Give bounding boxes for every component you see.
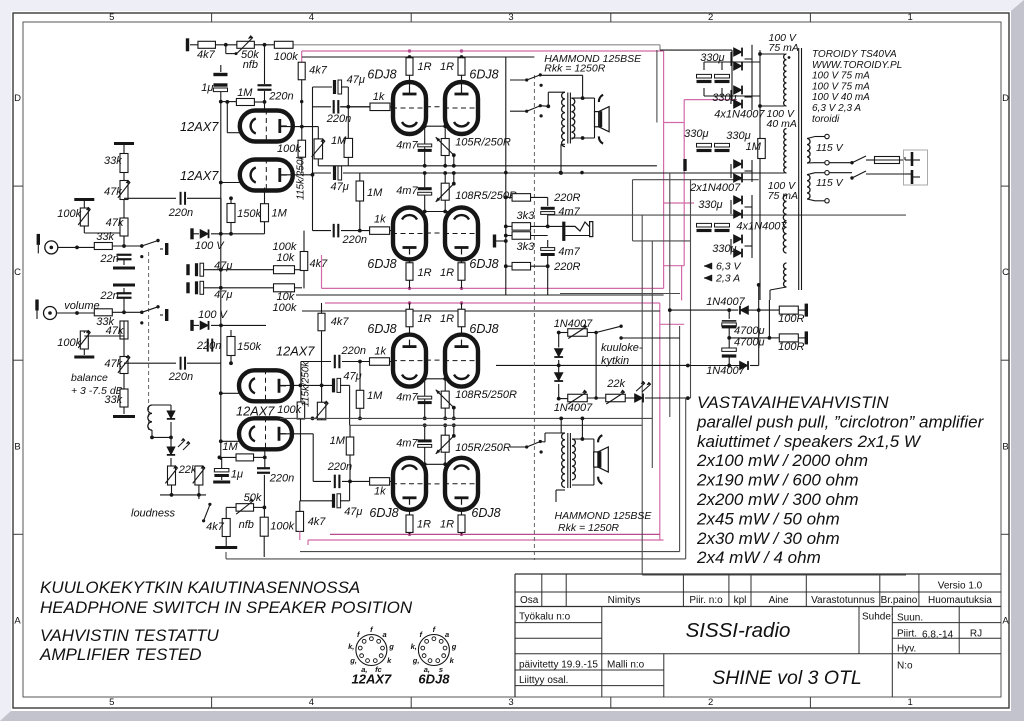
- svg-text:B: B: [1002, 441, 1008, 452]
- svg-text:220n: 220n: [168, 207, 193, 219]
- svg-text:1M: 1M: [367, 390, 383, 402]
- svg-text:k,: k,: [348, 642, 354, 651]
- svg-text:220n: 220n: [342, 234, 367, 246]
- svg-text:2x30 mW / 30 ohm: 2x30 mW / 30 ohm: [696, 529, 840, 548]
- svg-text:1M: 1M: [272, 208, 288, 220]
- svg-text:Br.paino: Br.paino: [881, 595, 918, 606]
- svg-text:12AX7: 12AX7: [276, 344, 315, 359]
- svg-text:1: 1: [908, 697, 913, 708]
- svg-text:g,: g,: [349, 656, 357, 665]
- svg-text:TOROIDY TS40VA: TOROIDY TS40VA: [812, 49, 897, 60]
- svg-text:1M: 1M: [330, 435, 346, 447]
- svg-text:2x200 mW / 300 ohm: 2x200 mW / 300 ohm: [696, 490, 859, 509]
- svg-text:47μ: 47μ: [343, 371, 361, 383]
- svg-text:a: a: [382, 630, 386, 639]
- svg-text:5: 5: [109, 12, 114, 23]
- svg-text:Hyv.: Hyv.: [897, 644, 916, 655]
- svg-text:150k: 150k: [237, 341, 261, 353]
- svg-text:40 mA: 40 mA: [767, 118, 797, 130]
- svg-text:100R: 100R: [778, 313, 804, 325]
- svg-text:kpl: kpl: [734, 595, 747, 606]
- svg-text:330μ: 330μ: [712, 243, 736, 255]
- svg-text:loudness: loudness: [131, 508, 176, 520]
- svg-text:100 V: 100 V: [195, 240, 225, 252]
- svg-text:päivitetty 19.9.-15: päivitetty 19.9.-15: [519, 660, 598, 671]
- svg-text:22k: 22k: [178, 464, 197, 476]
- svg-text:Osa: Osa: [520, 595, 539, 606]
- svg-text:6DJ8: 6DJ8: [469, 322, 498, 336]
- svg-text:4k7: 4k7: [310, 258, 329, 270]
- svg-text:115 V: 115 V: [816, 177, 844, 189]
- svg-text:2x45 mW / 50 ohm: 2x45 mW / 50 ohm: [696, 509, 840, 528]
- svg-text:115k/250k: 115k/250k: [301, 361, 312, 407]
- svg-text:VASTAVAIHEVAHVISTIN: VASTAVAIHEVAHVISTIN: [697, 393, 889, 412]
- svg-text:Aine: Aine: [769, 595, 789, 606]
- svg-text:105R/250R: 105R/250R: [455, 137, 511, 149]
- svg-text:3k3: 3k3: [517, 210, 536, 222]
- svg-text:4x1N4007: 4x1N4007: [714, 108, 765, 120]
- svg-text:balance: balance: [71, 372, 108, 384]
- svg-text:47k: 47k: [106, 325, 124, 337]
- svg-text:220n: 220n: [168, 371, 193, 383]
- svg-text:Työkalu n:o: Työkalu n:o: [519, 612, 571, 623]
- svg-text:100 V: 100 V: [198, 309, 228, 321]
- svg-text:22n: 22n: [99, 290, 118, 302]
- svg-text:47μ: 47μ: [214, 289, 232, 301]
- svg-text:g: g: [388, 642, 394, 651]
- svg-text:C: C: [14, 267, 21, 278]
- svg-text:nfb: nfb: [243, 59, 258, 71]
- svg-text:12AX7: 12AX7: [180, 168, 219, 183]
- svg-text:22n: 22n: [99, 253, 118, 265]
- svg-text:4k7: 4k7: [308, 516, 327, 528]
- svg-text:75 mA: 75 mA: [768, 190, 798, 202]
- svg-text:22k: 22k: [606, 378, 625, 390]
- svg-text:4x1N4007: 4x1N4007: [736, 221, 787, 233]
- svg-text:B: B: [14, 441, 20, 452]
- svg-text:220n: 220n: [326, 113, 351, 125]
- svg-text:Varastotunnus: Varastotunnus: [811, 595, 875, 606]
- svg-text:4m7: 4m7: [396, 139, 418, 151]
- svg-text:1M: 1M: [367, 187, 383, 199]
- svg-text:12AX7: 12AX7: [236, 404, 275, 419]
- svg-text:1N4007: 1N4007: [554, 318, 593, 330]
- svg-text:220n: 220n: [269, 473, 294, 485]
- svg-text:Suun.: Suun.: [897, 613, 923, 624]
- svg-text:2,3 A: 2,3 A: [715, 273, 740, 285]
- svg-text:a: a: [445, 630, 449, 639]
- svg-text:33k: 33k: [96, 231, 114, 243]
- svg-text:100 V 40 mA: 100 V 40 mA: [812, 92, 870, 103]
- svg-text:kytkin: kytkin: [601, 355, 629, 367]
- svg-text:100k: 100k: [270, 521, 294, 533]
- svg-text:1R: 1R: [440, 267, 454, 279]
- svg-text:2: 2: [708, 697, 713, 708]
- svg-text:2x4 mW / 4 ohm: 2x4 mW / 4 ohm: [696, 548, 821, 567]
- svg-text:4k7: 4k7: [197, 49, 216, 61]
- svg-text:1N4007: 1N4007: [554, 402, 593, 414]
- svg-text:KUULOKEKYTKIN KAIUTINASENNOSSA: KUULOKEKYTKIN KAIUTINASENNOSSA: [40, 578, 360, 597]
- svg-text:75 mA: 75 mA: [769, 42, 799, 54]
- svg-text:220n: 220n: [268, 91, 293, 103]
- svg-text:4k7: 4k7: [309, 65, 328, 77]
- svg-text:Suhde:: Suhde:: [862, 612, 894, 623]
- svg-text:Piirt.: Piirt.: [897, 629, 917, 640]
- svg-text:6.8.-14: 6.8.-14: [922, 630, 954, 641]
- svg-text:Nimitys: Nimitys: [608, 595, 641, 606]
- svg-text:47μ: 47μ: [347, 74, 365, 86]
- svg-text:SISSI-radio: SISSI-radio: [686, 619, 791, 642]
- svg-text:2x190 mW / 600 ohm: 2x190 mW / 600 ohm: [696, 471, 859, 490]
- svg-text:12AX7: 12AX7: [180, 119, 219, 134]
- svg-text:1R: 1R: [418, 267, 432, 279]
- svg-text:C: C: [1002, 267, 1009, 278]
- svg-text:Versio 1.0: Versio 1.0: [938, 581, 983, 592]
- svg-text:220n: 220n: [196, 340, 221, 352]
- svg-text:toroidi: toroidi: [812, 114, 840, 125]
- svg-text:6DJ8: 6DJ8: [367, 322, 396, 336]
- svg-text:47μ: 47μ: [331, 181, 349, 193]
- svg-text:4m7: 4m7: [558, 206, 580, 218]
- svg-text:parallel push pull, ”circlotro: parallel push pull, ”circlotron” amplifi…: [696, 412, 985, 431]
- svg-text:D: D: [14, 93, 21, 104]
- svg-text:6DJ8: 6DJ8: [367, 257, 396, 271]
- svg-text:RJ: RJ: [970, 629, 982, 640]
- svg-text:12AX7: 12AX7: [352, 672, 393, 687]
- svg-text:kuuloke-: kuuloke-: [601, 342, 643, 354]
- svg-text:330μ: 330μ: [712, 92, 736, 104]
- svg-text:3: 3: [508, 697, 513, 708]
- svg-text:6DJ8: 6DJ8: [418, 672, 450, 687]
- svg-text:Liittyy osal.: Liittyy osal.: [519, 675, 568, 686]
- svg-text:100 V 75 mA: 100 V 75 mA: [812, 71, 870, 82]
- svg-text:108R5/250R: 108R5/250R: [455, 190, 517, 202]
- svg-text:1k: 1k: [373, 91, 385, 103]
- svg-text:D: D: [1002, 93, 1009, 104]
- svg-text:4k7: 4k7: [331, 316, 350, 328]
- svg-text:5: 5: [109, 697, 114, 708]
- svg-text:nfb: nfb: [239, 519, 254, 531]
- svg-text:100k: 100k: [57, 208, 81, 220]
- svg-text:1M: 1M: [746, 141, 762, 153]
- svg-text:220R: 220R: [553, 192, 580, 204]
- svg-text:6DJ8: 6DJ8: [369, 506, 398, 520]
- svg-text:6DJ8: 6DJ8: [367, 68, 396, 82]
- svg-text:4m7: 4m7: [396, 392, 418, 404]
- svg-text:100k: 100k: [274, 51, 298, 63]
- svg-text:Piir. n:o: Piir. n:o: [689, 595, 723, 606]
- svg-text:220R: 220R: [553, 261, 580, 273]
- svg-text:1R: 1R: [440, 519, 454, 531]
- svg-text:VAHVISTIN TESTATTU: VAHVISTIN TESTATTU: [40, 626, 220, 645]
- svg-text:Malli n:o: Malli n:o: [607, 660, 645, 671]
- svg-text:1k: 1k: [374, 486, 386, 498]
- svg-text:Huomautuksia: Huomautuksia: [928, 595, 992, 606]
- svg-text:2: 2: [708, 12, 713, 23]
- svg-text:4m7: 4m7: [558, 246, 580, 258]
- svg-text:g: g: [451, 642, 457, 651]
- svg-text:100 V 75 mA: 100 V 75 mA: [812, 81, 870, 92]
- svg-text:3k3: 3k3: [517, 241, 536, 253]
- svg-text:6DJ8: 6DJ8: [469, 68, 498, 82]
- svg-text:1μ: 1μ: [201, 82, 213, 94]
- svg-text:100k: 100k: [273, 302, 297, 314]
- svg-text:2x100 mW / 2000 ohm: 2x100 mW / 2000 ohm: [696, 451, 868, 470]
- svg-text:1M: 1M: [222, 441, 238, 453]
- svg-text:WWW.TOROIDY.PL: WWW.TOROIDY.PL: [812, 60, 902, 71]
- svg-text:330μ: 330μ: [698, 199, 722, 211]
- svg-text:220n: 220n: [327, 461, 352, 473]
- svg-text:6,3 V 2,3 A: 6,3 V 2,3 A: [812, 103, 861, 114]
- svg-text:HAMMOND 125BSE: HAMMOND 125BSE: [555, 510, 653, 522]
- svg-text:47k: 47k: [104, 186, 122, 198]
- svg-text:1R: 1R: [440, 61, 454, 73]
- svg-text:6DJ8: 6DJ8: [471, 506, 500, 520]
- svg-text:1M: 1M: [331, 135, 347, 147]
- svg-text:100R: 100R: [778, 341, 804, 353]
- svg-text:Rkk = 1250R: Rkk = 1250R: [544, 63, 605, 75]
- svg-text:330μ: 330μ: [684, 128, 708, 140]
- svg-text:47k: 47k: [106, 217, 124, 229]
- svg-text:100k: 100k: [277, 404, 301, 416]
- svg-text:1μ: 1μ: [231, 468, 243, 480]
- svg-text:A: A: [1002, 615, 1009, 626]
- svg-text:4: 4: [309, 12, 314, 23]
- svg-text:6,3 V: 6,3 V: [716, 261, 742, 273]
- svg-text:4k7: 4k7: [206, 521, 225, 533]
- svg-text:50k: 50k: [244, 492, 262, 504]
- svg-text:4: 4: [309, 697, 314, 708]
- svg-text:100k: 100k: [277, 143, 301, 155]
- svg-text:1R: 1R: [418, 313, 432, 325]
- svg-text:115k/250k: 115k/250k: [296, 154, 307, 200]
- svg-text:105R/250R: 105R/250R: [455, 442, 511, 454]
- svg-text:1R: 1R: [418, 61, 432, 73]
- svg-text:2x1N4007: 2x1N4007: [689, 182, 741, 194]
- svg-text:SHINE vol 3 OTL: SHINE vol 3 OTL: [712, 667, 862, 689]
- svg-text:220n: 220n: [341, 345, 366, 357]
- svg-text:10k: 10k: [277, 252, 295, 264]
- svg-text:47μ: 47μ: [344, 506, 362, 518]
- svg-text:g,: g,: [412, 656, 420, 665]
- svg-text:1k: 1k: [374, 346, 386, 358]
- svg-text:6DJ8: 6DJ8: [469, 257, 498, 271]
- svg-text:1N4007: 1N4007: [706, 365, 745, 377]
- svg-text:AMPLIFIER TESTED: AMPLIFIER TESTED: [39, 645, 202, 664]
- svg-text:4700μ: 4700μ: [734, 325, 765, 337]
- svg-text:1k: 1k: [374, 214, 386, 226]
- svg-text:kaiuttimet / speakers 2x1,5 W: kaiuttimet / speakers 2x1,5 W: [697, 432, 922, 451]
- svg-text:3: 3: [508, 12, 513, 23]
- svg-text:HEADPHONE SWITCH IN SPEAKER PO: HEADPHONE SWITCH IN SPEAKER POSITION: [40, 598, 413, 617]
- svg-text:1R: 1R: [417, 519, 431, 531]
- svg-text:100k: 100k: [57, 337, 81, 349]
- svg-text:1M: 1M: [237, 87, 253, 99]
- svg-text:115 V: 115 V: [816, 142, 844, 154]
- svg-text:1R: 1R: [440, 313, 454, 325]
- svg-text:33k: 33k: [104, 155, 122, 167]
- svg-text:4m7: 4m7: [396, 185, 418, 197]
- svg-text:108R5/250R: 108R5/250R: [455, 389, 517, 401]
- svg-text:N:o: N:o: [897, 661, 913, 672]
- svg-text:4m7: 4m7: [396, 437, 418, 449]
- svg-text:A: A: [14, 615, 21, 626]
- svg-text:47k: 47k: [104, 358, 122, 370]
- svg-text:33k: 33k: [104, 394, 122, 406]
- svg-text:150k: 150k: [237, 208, 261, 220]
- svg-text:k,: k,: [411, 642, 417, 651]
- svg-text:Rkk = 1250R: Rkk = 1250R: [558, 522, 619, 534]
- svg-text:1: 1: [908, 12, 913, 23]
